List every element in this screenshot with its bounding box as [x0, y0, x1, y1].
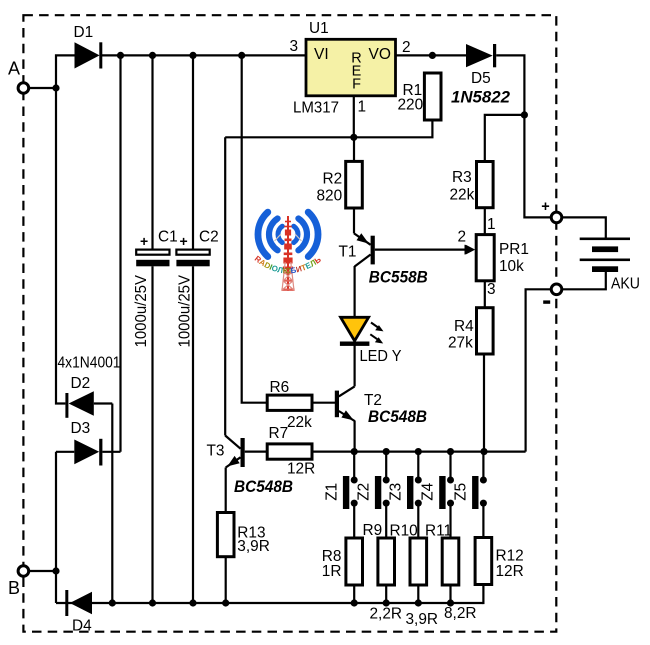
- svg-text:1: 1: [358, 99, 367, 116]
- wire R1 bottom to ADJ rail corner: [225, 120, 432, 137]
- resistor R11: [442, 538, 459, 585]
- svg-text:LED Y: LED Y: [360, 348, 402, 365]
- wire R7 right to switch rail: [312, 451, 355, 453]
- wire ADJ rail to R2 top: [353, 137, 355, 161]
- wire left bus D3 down to B and bottom rail: [55, 452, 57, 603]
- potentiometer PR1: [466, 235, 495, 281]
- svg-text:Z1: Z1: [324, 483, 341, 501]
- resistor R10: [410, 538, 427, 585]
- wire B terminal to left bus: [29, 570, 58, 572]
- transistor T3 BC548B (NPN, mirrored): [225, 436, 245, 468]
- wire T2 emitter down to switch rail: [354, 421, 356, 452]
- junction ADJ rail pin1: [350, 134, 357, 141]
- svg-text:Z5: Z5: [453, 483, 470, 501]
- battery AKU: [580, 238, 630, 273]
- svg-text:BC558B: BC558B: [369, 268, 428, 286]
- junction top rail C1: [149, 52, 156, 59]
- diode D1: [75, 42, 103, 68]
- junction bottom rail R8: [351, 599, 358, 606]
- resistor R8: [346, 538, 363, 585]
- wire plus node down to terminal plus: [524, 115, 551, 217]
- svg-text:1: 1: [487, 216, 496, 233]
- resistor R6: [267, 395, 312, 410]
- junction switch rail Z4: [447, 448, 454, 455]
- diode D3: [74, 439, 102, 466]
- wire T1 base to PR1 wiper: [375, 249, 467, 251]
- svg-text:R11: R11: [425, 523, 452, 540]
- wire capacitor C1 column bottom: [151, 266, 153, 603]
- wire T1 collector down to LED anode: [354, 266, 356, 318]
- schematic boundary dashed frame: [23, 15, 556, 632]
- wire D2 anode to crossing column: [94, 402, 113, 404]
- T1 base wiper arrowhead into PR1: [465, 245, 475, 255]
- jumper Z1: [343, 452, 358, 538]
- svg-text:10k: 10k: [499, 258, 524, 275]
- svg-text:BC548B: BC548B: [368, 408, 427, 426]
- wire capacitor C1 column top: [151, 55, 153, 249]
- svg-text:PR1: PR1: [499, 241, 529, 258]
- wire U1 pin1 to ADJ rail: [353, 96, 355, 138]
- svg-text:Z4: Z4: [420, 482, 437, 500]
- svg-text:D1: D1: [74, 24, 94, 41]
- wire D2 anode column down to bottom rail: [111, 404, 113, 604]
- node label minus: [543, 300, 550, 303]
- wire R3 bottom to PR1 pin1: [484, 208, 486, 235]
- svg-text:R2: R2: [323, 171, 343, 188]
- junction VO rail R1: [429, 52, 436, 59]
- watermark logo: radio tower with arcs and curved text: [253, 212, 325, 291]
- diode D4: [65, 590, 92, 616]
- wire plus node to R3 top: [485, 115, 525, 162]
- svg-text:27k: 27k: [448, 335, 473, 352]
- wire switch rail: [354, 451, 525, 453]
- wire R11 bottom: [449, 585, 451, 603]
- svg-text:1000u/25V: 1000u/25V: [133, 274, 150, 347]
- svg-text:2,2R: 2,2R: [370, 605, 403, 622]
- svg-text:R7: R7: [269, 425, 289, 442]
- wire LED cathode to T2 collector: [354, 344, 356, 386]
- wire D5 cathode to plus node: [496, 55, 524, 115]
- junction top rail x120: [117, 52, 124, 59]
- svg-text:VI: VI: [314, 46, 329, 63]
- wire R4 bottom to switch rail: [483, 354, 485, 452]
- svg-text:3: 3: [290, 38, 299, 55]
- wire R6 right to T2 base: [312, 402, 335, 404]
- svg-text:AKU: AKU: [611, 276, 640, 293]
- svg-text:1000u/25V: 1000u/25V: [177, 274, 194, 347]
- jumper Z4: [439, 452, 454, 538]
- svg-text:22k: 22k: [450, 187, 475, 204]
- junction bottom rail R10: [415, 599, 422, 606]
- wire terminal minus to switch rail right side: [526, 289, 552, 451]
- wire bottom rail: [56, 602, 483, 604]
- junction switch rail Z1: [351, 448, 358, 455]
- terminal plus: [551, 212, 562, 223]
- junction bottom rail x112: [109, 599, 116, 606]
- capacitor C2 plates: [176, 250, 209, 267]
- svg-text:+: +: [140, 233, 148, 249]
- wire D3 cathode to top-rail column: [102, 451, 120, 453]
- svg-text:+: +: [541, 199, 549, 215]
- wire left bus up to D1 anode: [56, 55, 75, 88]
- junction top rail C2: [189, 52, 196, 59]
- wire A terminal to left bus: [29, 87, 58, 89]
- wire R9 bottom: [385, 585, 387, 603]
- svg-text:3,9R: 3,9R: [237, 538, 270, 555]
- svg-text:12R: 12R: [496, 563, 524, 580]
- junction switch rail Z3: [415, 448, 422, 455]
- junction B bus: [52, 567, 59, 574]
- wire battery bottom to terminal minus: [562, 272, 606, 289]
- LED Y: [340, 317, 384, 346]
- resistor R7: [267, 444, 312, 459]
- junction bottom rail C2: [189, 599, 196, 606]
- wire terminal plus to battery top: [562, 217, 606, 238]
- resistor R13: [217, 513, 234, 557]
- junction bottom rail R11: [447, 599, 454, 606]
- resistor R4: [477, 308, 494, 354]
- svg-text:LM317: LM317: [293, 100, 339, 117]
- wire T3 base to R7 left: [245, 451, 268, 453]
- svg-text:8,2R: 8,2R: [444, 605, 477, 622]
- diode D2: [65, 391, 93, 418]
- wire R8 bottom: [353, 585, 355, 603]
- wire R13 bottom to bottom rail: [225, 557, 227, 603]
- junction top rail R6 column: [238, 52, 245, 59]
- svg-text:F: F: [352, 77, 361, 93]
- svg-text:C2: C2: [199, 229, 219, 246]
- svg-text:4x1N4001: 4x1N4001: [58, 355, 121, 372]
- svg-text:3,9R: 3,9R: [406, 611, 439, 628]
- resistor R12: [475, 538, 492, 585]
- terminal B: [18, 566, 29, 577]
- svg-text:U1: U1: [309, 20, 329, 37]
- U1 pin label REF (stacked): [351, 51, 361, 93]
- U1 LM317 regulator: [306, 39, 396, 96]
- svg-text:220: 220: [398, 97, 424, 114]
- wire left bus A down to D2 cathode: [56, 88, 65, 404]
- svg-text:2: 2: [402, 39, 411, 56]
- jumper Z5: [472, 452, 487, 538]
- wire R12 bottom: [482, 585, 484, 605]
- svg-text:R3: R3: [452, 169, 472, 186]
- transistor T1 BC558B (PNP): [354, 233, 375, 266]
- resistor R2: [346, 161, 363, 208]
- svg-text:B: B: [8, 578, 20, 598]
- wire capacitor C2 column bottom: [192, 266, 194, 603]
- terminal minus: [551, 284, 562, 295]
- terminal A: [18, 83, 29, 94]
- junction A bus: [52, 84, 59, 91]
- junction plus node: [521, 111, 528, 118]
- wire T3 emitter down to R13: [225, 468, 227, 513]
- wire top rail D1 cathode to U1 VI: [102, 54, 307, 56]
- svg-text:T1: T1: [339, 244, 357, 261]
- capacitor C1 plates: [136, 250, 169, 267]
- svg-text:3: 3: [487, 281, 496, 298]
- junction switch rail Z2: [383, 448, 390, 455]
- svg-text:2: 2: [458, 229, 467, 246]
- wire R2 bottom to T1 emitter: [353, 208, 355, 233]
- resistor R1: [424, 73, 441, 120]
- svg-text:820: 820: [317, 187, 343, 204]
- wire U1 VO to D5 anode: [396, 54, 467, 56]
- wire capacitor C2 column top: [192, 55, 194, 249]
- svg-text:+: +: [180, 233, 188, 249]
- svg-text:BC548B: BC548B: [234, 478, 293, 496]
- svg-text:VO: VO: [369, 46, 391, 63]
- junction switch rail Z5/R4: [480, 448, 487, 455]
- junction bottom rail R13: [222, 599, 229, 606]
- svg-text:R4: R4: [454, 318, 474, 335]
- svg-text:D3: D3: [71, 420, 91, 437]
- jumper Z2: [375, 452, 390, 538]
- svg-text:Z3: Z3: [388, 483, 405, 501]
- svg-text:R10: R10: [390, 523, 418, 540]
- svg-text:22k: 22k: [287, 414, 312, 431]
- svg-text:1R: 1R: [322, 563, 342, 580]
- transistor T2 BC548B (NPN): [335, 386, 355, 421]
- svg-text:R12: R12: [496, 548, 524, 565]
- resistor R9: [378, 538, 395, 585]
- svg-text:A: A: [8, 59, 20, 79]
- wire left bus segment to D3 anode: [56, 451, 74, 453]
- svg-text:C1: C1: [158, 229, 178, 246]
- svg-text:D5: D5: [471, 70, 491, 87]
- wire top rail branch down to D3 cathode side: [119, 55, 121, 451]
- svg-text:R6: R6: [270, 379, 290, 396]
- wire ADJ rail down to T3 collector: [224, 137, 226, 435]
- wire R10 bottom: [417, 585, 419, 603]
- jumper Z3: [407, 452, 422, 538]
- resistor R3: [477, 162, 494, 208]
- junction bottom rail R9: [383, 599, 390, 606]
- svg-text:D2: D2: [71, 375, 91, 392]
- diode D5: [466, 44, 496, 67]
- svg-text:D4: D4: [72, 618, 92, 635]
- svg-text:T3: T3: [207, 443, 225, 460]
- svg-text:1N5822: 1N5822: [451, 89, 510, 107]
- svg-text:R9: R9: [363, 522, 383, 539]
- wire top rail down to R6 left: [242, 55, 268, 402]
- svg-text:Z2: Z2: [356, 483, 373, 501]
- svg-text:T2: T2: [364, 392, 382, 409]
- svg-text:12R: 12R: [287, 461, 315, 478]
- wire PR1 pin3 to R4 top: [484, 281, 486, 308]
- junction bottom rail C1: [149, 599, 156, 606]
